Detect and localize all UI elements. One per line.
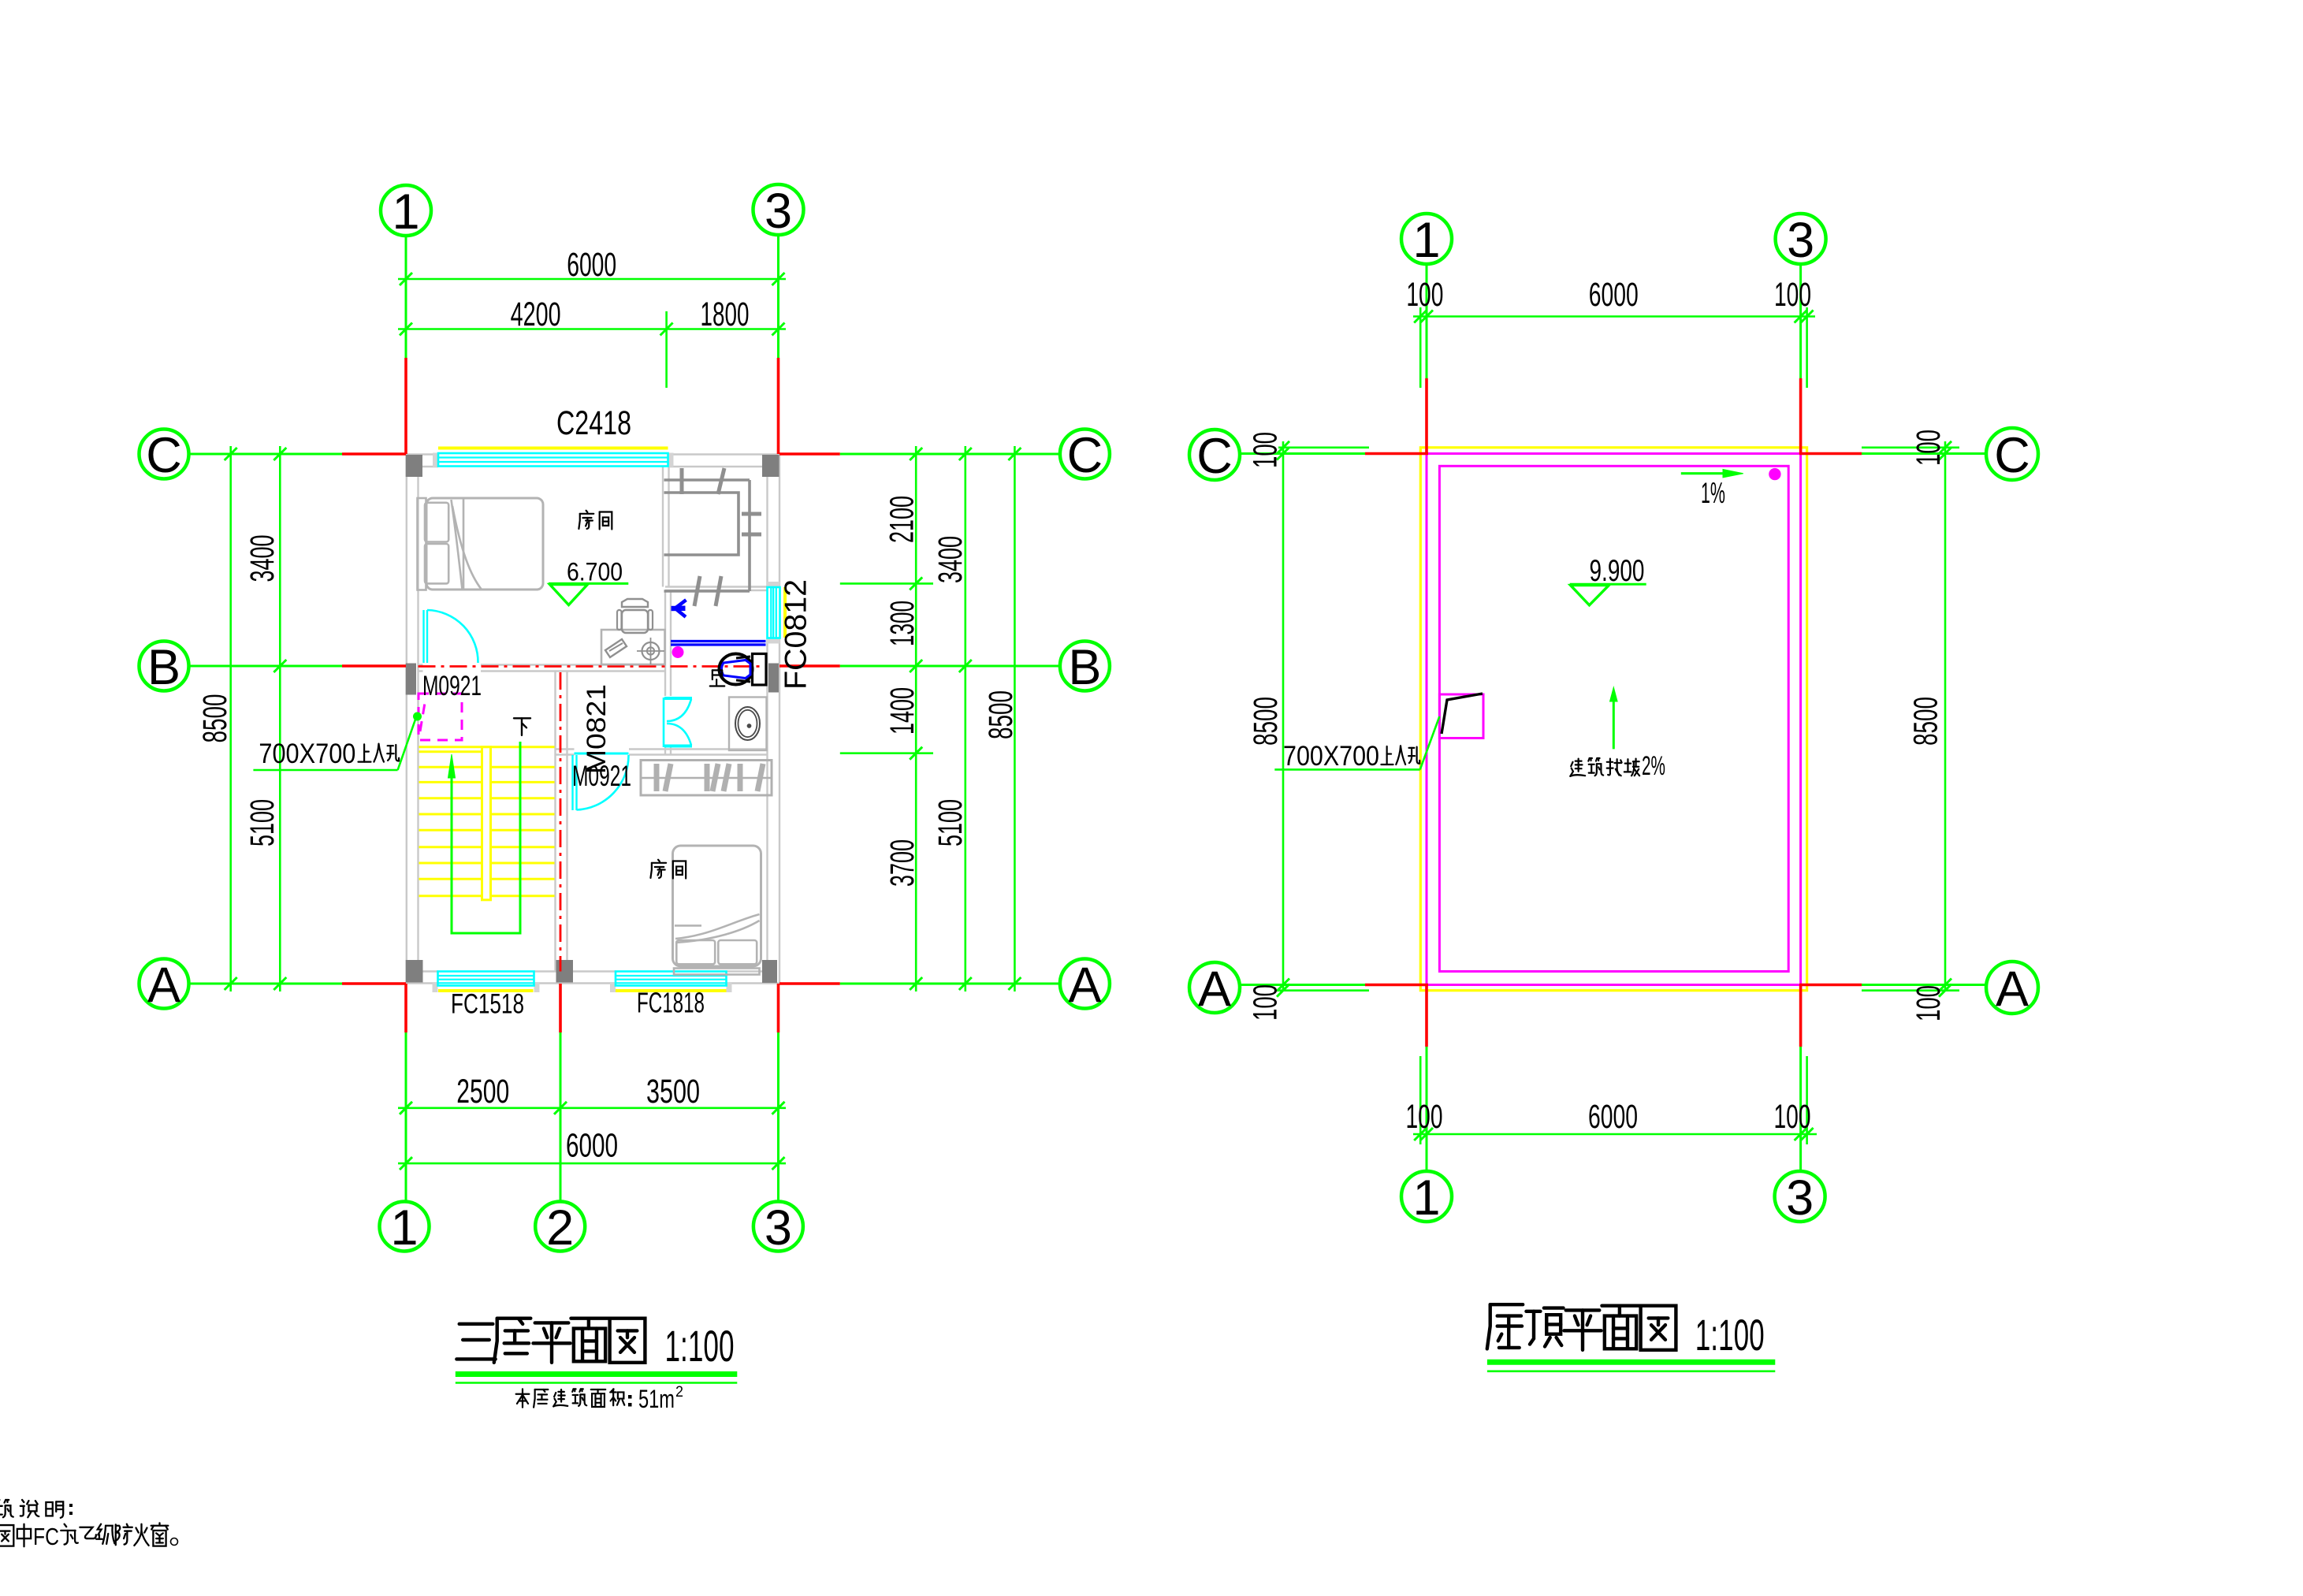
svg-text:1400: 1400 — [884, 687, 921, 735]
column axis1/A — [406, 960, 423, 983]
svg-text:3400: 3400 — [244, 535, 281, 582]
svg-text:100: 100 — [1774, 1098, 1811, 1136]
svg-text:6000: 6000 — [567, 246, 616, 284]
axis circle 3 bottom-left plan — [753, 1202, 803, 1252]
wall bathroom top partition — [665, 586, 768, 587]
svg-text:1:100: 1:100 — [665, 1321, 735, 1371]
dim line 4200 1800 — [398, 328, 786, 330]
wall bedroom-closet partition — [662, 467, 664, 587]
column axis1/C — [406, 455, 422, 477]
roof slope arrow vertical — [1613, 697, 1615, 749]
roof slope label jianzhu zhaopo 2 percent — [1570, 759, 1585, 776]
bathroom label — [710, 670, 724, 686]
axis circle 2 bottom-left plan — [535, 1202, 585, 1252]
shower screen double blue line — [671, 640, 766, 642]
svg-text:6000: 6000 — [566, 1127, 618, 1165]
axis circle A right — [1060, 959, 1110, 1009]
green axis and extension lines roof plan — [1426, 264, 1428, 378]
column axis3/B — [768, 664, 779, 693]
dim line 6000 bottom — [398, 1163, 786, 1165]
svg-text:3400: 3400 — [932, 536, 969, 583]
svg-text:A: A — [1996, 962, 2029, 1017]
column axis1/B — [406, 664, 416, 695]
svg-text:M0821: M0821 — [582, 684, 612, 774]
floor drain magenta dot — [672, 647, 683, 658]
axis circle C right roof — [1986, 428, 2038, 480]
toilet — [753, 654, 767, 686]
svg-text:100: 100 — [1247, 432, 1285, 468]
svg-text:2: 2 — [675, 1384, 683, 1401]
roof magenta inner rect — [1439, 466, 1788, 971]
green axis lines left plan — [405, 236, 407, 358]
chair — [622, 599, 648, 607]
svg-text:FC0812: FC0812 — [779, 579, 813, 690]
svg-text:3500: 3500 — [646, 1073, 700, 1111]
svg-text:A: A — [1068, 958, 1101, 1013]
svg-text:100: 100 — [1774, 276, 1811, 314]
red axis extensions below left plan — [404, 984, 407, 1032]
roof side dim lines 8500 — [1282, 441, 1285, 991]
stair down label — [514, 718, 530, 735]
column axis2/A — [556, 960, 574, 983]
axis circle 1 bottom-left plan — [380, 1202, 430, 1252]
note FC fire window — [0, 1525, 13, 1546]
column axis3/A — [762, 960, 777, 983]
bed room2 — [673, 846, 761, 966]
svg-text:9.900: 9.900 — [1590, 554, 1645, 588]
window FC0812 right wall — [767, 582, 780, 587]
svg-text:8500: 8500 — [196, 694, 234, 743]
roof yellow outline — [1420, 448, 1806, 991]
shower head symbol — [672, 606, 675, 611]
bed room2 headboard — [674, 969, 760, 975]
svg-text:FC1818: FC1818 — [637, 987, 705, 1019]
dim lines left side 8500 3400 5100 — [229, 446, 232, 991]
svg-text:8500: 8500 — [982, 690, 1020, 739]
dim line 2500 3500 bottom — [398, 1107, 786, 1110]
wall stair partition axis 2 — [554, 672, 556, 972]
roof manhole square with lid — [1439, 694, 1483, 738]
svg-text:1:100: 1:100 — [1695, 1310, 1765, 1360]
svg-text:C: C — [1196, 429, 1233, 484]
roof magenta outer rect — [1427, 454, 1801, 985]
door M0921 room1 — [422, 610, 424, 663]
red axis B dash-dot through building — [419, 665, 768, 668]
wall right axis 3 with FC0812 gap — [779, 455, 780, 588]
axis circle 3 bottom roof — [1775, 1171, 1825, 1222]
svg-text:1: 1 — [392, 184, 419, 240]
manhole dashed square left plan — [419, 694, 462, 740]
wardrobe room1 — [664, 478, 750, 482]
svg-text:1: 1 — [1412, 213, 1440, 268]
red axis stubs left plan sides — [342, 452, 406, 456]
wall room2 top partition with door gap — [556, 748, 575, 750]
svg-text:FC1518: FC1518 — [451, 989, 524, 1020]
roof top dim line — [1413, 315, 1815, 318]
svg-text:3: 3 — [765, 184, 792, 239]
level marker triangle 6.700 — [549, 582, 628, 585]
title underline right — [1487, 1360, 1775, 1365]
wall left axis 1 — [406, 455, 407, 984]
stair walk line with arrow — [452, 742, 520, 933]
washbasin — [729, 698, 767, 751]
manhole leader left plan — [253, 769, 397, 772]
axis circle A left roof — [1189, 962, 1240, 1013]
column axis3/C — [762, 455, 779, 477]
svg-text:6000: 6000 — [1589, 276, 1639, 314]
svg-text:6.700: 6.700 — [567, 558, 623, 586]
svg-text:100: 100 — [1910, 430, 1948, 466]
svg-text:A: A — [1198, 962, 1231, 1017]
roof manhole leader — [1274, 768, 1419, 771]
axis circle 3 top-left plan — [753, 184, 804, 235]
roof bottom dim line — [1413, 1133, 1817, 1136]
svg-text:1: 1 — [1412, 1170, 1440, 1226]
svg-text:2100: 2100 — [884, 496, 921, 543]
title wu ding ping mian tu — [1487, 1304, 1523, 1349]
svg-text:2500: 2500 — [456, 1073, 509, 1111]
title underline left — [456, 1371, 738, 1377]
axis circle 1 top-left plan — [381, 185, 431, 236]
svg-text:6000: 6000 — [1588, 1098, 1638, 1136]
svg-text:700X700: 700X700 — [259, 738, 355, 769]
svg-text:5100: 5100 — [932, 799, 969, 846]
axis circle B right — [1060, 642, 1110, 691]
stairs yellow treads and stringer — [419, 746, 491, 748]
title san ceng ping mian tu — [456, 1324, 495, 1360]
bed room1 — [418, 498, 426, 590]
svg-text:C: C — [1994, 428, 2030, 483]
axis circle 3 top roof — [1776, 214, 1826, 264]
svg-text:1: 1 — [390, 1200, 418, 1256]
svg-text:A: A — [147, 958, 180, 1013]
svg-text:8500: 8500 — [1907, 697, 1945, 746]
svg-text:C2418: C2418 — [556, 404, 631, 442]
axis circle C right — [1060, 430, 1110, 479]
svg-text:3: 3 — [765, 1200, 792, 1256]
svg-text:700X700: 700X700 — [1283, 741, 1379, 772]
svg-text:100: 100 — [1247, 984, 1285, 1021]
svg-text:8500: 8500 — [1247, 697, 1285, 746]
desk with laptop and mouse — [601, 630, 665, 664]
svg-text:100: 100 — [1910, 985, 1948, 1021]
area note 51m2 — [516, 1389, 530, 1407]
wall bathroom left partition — [664, 590, 666, 697]
svg-text:C: C — [1067, 428, 1103, 483]
axis circle A left — [140, 959, 189, 1009]
red axis 2 dash-dot through building — [560, 672, 562, 972]
svg-text:5100: 5100 — [244, 799, 281, 846]
wall axis B interior with door gap — [419, 664, 423, 665]
svg-text:1%: 1% — [1701, 477, 1725, 509]
room2 label — [650, 860, 666, 878]
svg-text:2%: 2% — [1642, 751, 1665, 781]
svg-text:100: 100 — [1406, 276, 1443, 314]
roof level marker triangle 9.900 — [1570, 583, 1646, 586]
axis circle 1 top roof — [1401, 214, 1452, 264]
svg-text:51m: 51m — [638, 1385, 675, 1413]
svg-text:4200: 4200 — [511, 296, 561, 333]
note zhushuoming — [0, 1500, 13, 1517]
axis circle A right roof — [1986, 962, 2038, 1014]
svg-text:M0921: M0921 — [422, 671, 482, 701]
svg-text:3: 3 — [1786, 1170, 1814, 1226]
window FC1518 bottom wall — [433, 983, 438, 992]
door bathroom bi-fold — [663, 698, 665, 747]
svg-text:B: B — [147, 640, 180, 695]
dim line 6000 top — [398, 278, 786, 281]
svg-text:3: 3 — [1787, 213, 1814, 268]
axis circle C left roof — [1189, 430, 1240, 480]
door M0921 room2 — [575, 753, 629, 755]
axis circle C left — [140, 430, 189, 479]
red axis extensions above left plan — [404, 358, 407, 454]
svg-text:B: B — [1068, 640, 1101, 695]
svg-text:1300: 1300 — [884, 601, 921, 646]
roof slope arrow 1 percent — [1681, 472, 1726, 474]
axis circle B left — [140, 642, 189, 691]
wall bottom axis A with window gaps — [406, 982, 438, 984]
window FC1818 bottom wall — [610, 983, 616, 992]
svg-text:3700: 3700 — [884, 839, 921, 887]
window C2418 top wall — [433, 453, 438, 467]
axis circle 1 bottom roof — [1401, 1171, 1452, 1222]
svg-text:C: C — [146, 428, 182, 483]
roof magenta drain dot — [1769, 468, 1780, 479]
svg-text:100: 100 — [1406, 1098, 1443, 1136]
dim lines right side of left plan — [915, 446, 917, 991]
svg-text:1800: 1800 — [701, 296, 750, 333]
red axis segments roof plan — [1425, 378, 1428, 454]
closet room2 hanger ticks — [641, 761, 772, 796]
svg-text:2: 2 — [546, 1200, 574, 1256]
svg-text:FC: FC — [33, 1523, 59, 1550]
room1 label — [579, 511, 593, 529]
wall top axis C — [406, 453, 438, 455]
